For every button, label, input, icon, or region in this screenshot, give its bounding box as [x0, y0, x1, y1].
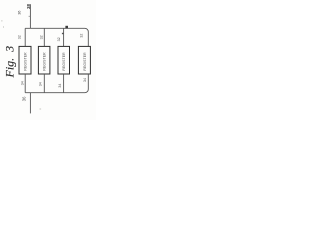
svg-text:32: 32 — [57, 37, 61, 41]
wire: stub below box 2 — [43, 74, 45, 93]
wire: top feeder vertical — [29, 4, 31, 28]
svg-text:REGISTER: REGISTER — [43, 52, 47, 71]
wire: stub below box 4 with curve to bottom bus — [25, 74, 88, 93]
svg-text:32: 32 — [40, 35, 44, 39]
svg-text:34: 34 — [21, 81, 25, 85]
svg-text:REGISTER: REGISTER — [23, 52, 27, 71]
box 4 (register) — [78, 46, 90, 74]
wire: stub above box 1 — [24, 28, 26, 46]
svg-text:32: 32 — [17, 35, 21, 39]
svg-text:34: 34 — [58, 84, 62, 88]
svg-text:34: 34 — [83, 78, 87, 82]
wire: stub above box 2 — [43, 28, 45, 46]
box 2 (register) — [38, 46, 50, 74]
wire: stub below box 1 — [24, 74, 26, 93]
svg-text:REGISTER: REGISTER — [83, 52, 87, 71]
svg-text:34: 34 — [39, 82, 43, 86]
box 3 (register) — [58, 46, 70, 74]
wire: top bus with rounded right corner — [25, 28, 88, 46]
faint paper speck — [40, 109, 42, 110]
svg-text:38: 38 — [26, 4, 31, 9]
faint paper speck — [1, 20, 4, 22]
wire: bottom feeder vertical — [29, 93, 31, 114]
svg-text:36: 36 — [21, 96, 26, 101]
wire: stub below box 3 — [63, 74, 65, 93]
wire: stub above box 3 — [63, 28, 65, 46]
tick at stub3 top — [62, 33, 64, 34]
svg-text:REGISTER: REGISTER — [62, 52, 66, 71]
label 30 on top bus — [65, 26, 68, 29]
svg-text:Fig. 3: Fig. 3 — [3, 46, 17, 79]
svg-text:32: 32 — [80, 34, 84, 38]
svg-text:36: 36 — [17, 11, 21, 15]
lead line for label 36 top — [29, 15, 31, 17]
box 1 (register) — [19, 46, 31, 74]
faint paper speck — [3, 27, 4, 28]
